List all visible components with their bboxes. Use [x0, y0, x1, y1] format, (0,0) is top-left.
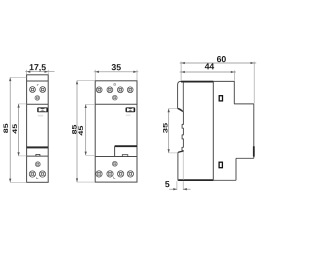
switch V1	[37, 107, 48, 112]
bottom edge thick segment	[178, 179, 213, 181]
front panel top line V1	[27, 103, 49, 105]
terminal screw top 4 V2	[127, 87, 133, 93]
internal edge of top cover side view	[182, 82, 184, 112]
module body outline V1	[27, 75, 49, 183]
dimension 45 V2	[78, 104, 95, 155]
lower right cover box V2	[115, 146, 137, 156]
front panel top line V2	[95, 103, 137, 105]
lower clip hole	[219, 162, 222, 168]
module body outline V2	[95, 81, 137, 182]
internal edge of bottom cover side view	[182, 152, 184, 181]
lower cover line V2	[95, 156, 137, 158]
top edge thick segment	[181, 81, 213, 83]
svg-text:17,5: 17,5	[29, 62, 46, 72]
dimension 44 side view	[180, 61, 236, 80]
faint print below switch V2	[126, 115, 131, 117]
terminal screw bottom 4 V2	[127, 171, 133, 177]
dimension 35 V2	[94, 62, 139, 80]
svg-text:60: 60	[217, 54, 227, 64]
internal vertical line side view	[212, 82, 214, 181]
terminal screw bottom 1 V2	[96, 171, 102, 177]
svg-text:35: 35	[111, 62, 121, 72]
terminal label mark top V2	[114, 84, 116, 86]
svg-text:5: 5	[165, 179, 170, 189]
DIN clip tab V2	[122, 155, 128, 157]
terminal screw top 1 V2	[96, 87, 102, 93]
terminal screw bottom-left V1	[29, 171, 35, 177]
svg-text:45: 45	[78, 125, 85, 136]
terminal label mark bottom V2	[114, 177, 116, 179]
terminal screw bottom 3 V2	[117, 171, 123, 177]
DIN clip tab V1	[36, 154, 40, 156]
terminal screw top 2 V2	[107, 87, 113, 93]
terminal screw bottom 2 V2	[107, 171, 113, 177]
dimension 85 V2	[72, 81, 95, 183]
svg-text:85: 85	[3, 123, 10, 133]
coil screw top V2	[112, 95, 117, 100]
coil screw bottom V1	[35, 162, 40, 167]
dimension 60 side view	[180, 54, 257, 103]
back DIN-rail dark segment	[253, 146, 255, 156]
top cap line V1	[27, 80, 49, 82]
svg-text:44: 44	[205, 61, 215, 71]
dimension 45 V1	[12, 104, 26, 156]
terminal screw top-left V1	[30, 87, 36, 93]
svg-text:45: 45	[12, 123, 19, 133]
step dark corner top	[178, 108, 183, 111]
svg-text:35: 35	[163, 122, 170, 133]
switch V2	[126, 107, 136, 112]
coil screw top V1	[35, 96, 40, 101]
coil screw bottom V2	[112, 161, 117, 166]
dimension 35 side view	[163, 109, 178, 153]
lower cover line V1	[27, 155, 49, 157]
terminal label mark bottom V1	[37, 177, 39, 179]
faint print below switch V1	[38, 115, 44, 117]
terminal label mark top V1	[37, 85, 39, 87]
step dark corner bottom	[178, 151, 183, 152]
terminal screw bottom-right V1	[39, 171, 45, 177]
dimension 5 side view	[165, 179, 191, 190]
terminal screw top 3 V2	[117, 87, 123, 93]
side profile outline	[178, 81, 254, 180]
terminal screw top-right V1	[40, 87, 46, 93]
front cover bottom dark band V1	[27, 146, 49, 148]
dimension 17,5 V1	[25, 62, 54, 74]
dimension 85 V1	[3, 77, 26, 182]
upper clip hole	[219, 96, 222, 101]
